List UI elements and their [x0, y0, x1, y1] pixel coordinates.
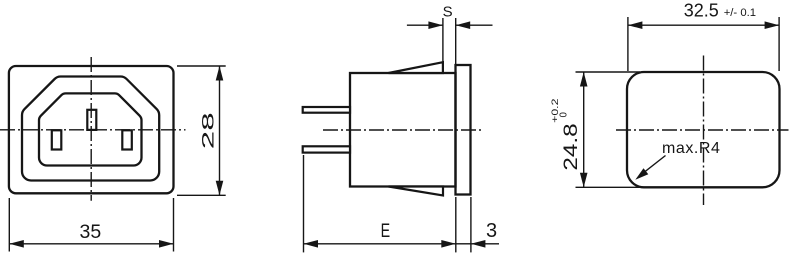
dimension S: right tail line — [456, 24, 493, 26]
connector body — [350, 73, 456, 187]
dimension 24.8: lower arrowhead — [580, 173, 588, 188]
dimension 3: arrowhead pointing left — [471, 240, 486, 248]
dimension 24.8: dimension line — [583, 72, 585, 187]
svg-text:3: 3 — [486, 220, 497, 242]
svg-text:0: 0 — [559, 112, 570, 118]
dimension 32.5: left arrowhead — [628, 21, 643, 29]
svg-text:35: 35 — [80, 221, 102, 243]
dimension E: right arrowhead — [441, 240, 456, 248]
dimension 35: right arrowhead — [159, 240, 174, 248]
dimension 24.8: upper arrowhead — [580, 72, 588, 87]
panel cut-out rounded rectangle — [627, 72, 780, 187]
max.R4 leader arrowhead — [635, 168, 648, 179]
earth pin (top center blade) — [87, 110, 96, 130]
dimension 32.5: dimension line — [628, 24, 779, 26]
svg-text:max.R4: max.R4 — [662, 140, 720, 157]
dimension 28: extension lines — [177, 65, 226, 67]
dimension S: left tail line — [407, 24, 443, 26]
dimension S: right arrowhead pointing left — [456, 21, 471, 29]
dimension 3: tail line to the right — [471, 243, 499, 245]
lower snap-in barb — [389, 187, 444, 196]
svg-text:S: S — [443, 4, 453, 21]
max.R4 leader line — [639, 156, 666, 177]
dimension 28: dimension line — [219, 66, 221, 195]
horizontal centerline of front view — [0, 129, 186, 131]
upper snap-in barb — [389, 62, 443, 73]
dimension 3: line between extension lines — [456, 243, 471, 245]
cut-out horizontal centerline — [616, 129, 789, 131]
cut-out vertical centerline — [703, 56, 705, 206]
dimension E: dimension line — [304, 243, 456, 245]
dimension 28: upper arrowhead — [216, 66, 224, 81]
svg-text:32.5: 32.5 — [684, 0, 719, 20]
dimension E: left arrowhead — [304, 240, 319, 248]
flange right extension line — [470, 197, 472, 252]
upper solder pin — [303, 107, 350, 113]
flange left extension line — [455, 197, 457, 252]
dimension 32.5: right arrowhead — [765, 21, 780, 29]
side view centerline — [323, 129, 483, 131]
dimension 35: extension lines — [8, 198, 10, 252]
left line pin blade — [52, 130, 62, 149]
dimension S: left arrowhead pointing right — [428, 21, 443, 29]
lower solder pin — [303, 146, 350, 152]
dimension 35: left arrowhead — [9, 240, 23, 248]
mounting flange plate — [456, 65, 471, 195]
dimension 24.8: extension lines — [576, 71, 641, 73]
recess floor contour (inner C14 hexagon) — [39, 93, 142, 165]
svg-text:28: 28 — [198, 112, 217, 149]
svg-text:+/- 0.1: +/- 0.1 — [724, 7, 756, 19]
svg-text:E: E — [381, 220, 391, 242]
right neutral pin blade — [122, 130, 132, 149]
svg-text:24.8: 24.8 — [560, 123, 582, 170]
recess rim contour (middle C14 hexagon) — [22, 77, 159, 181]
dimension 32.5: extension lines — [627, 17, 629, 71]
svg-text:+0.2: +0.2 — [550, 99, 560, 123]
dimension 28: lower arrowhead — [216, 181, 224, 196]
outer flange rounded rectangle — [9, 66, 174, 193]
vertical centerline of front view — [90, 57, 92, 201]
dimension S: extension lines — [442, 18, 444, 62]
dimension E: left extension line (from pin end) — [303, 155, 305, 252]
dimension 35: dimension line — [9, 243, 173, 245]
